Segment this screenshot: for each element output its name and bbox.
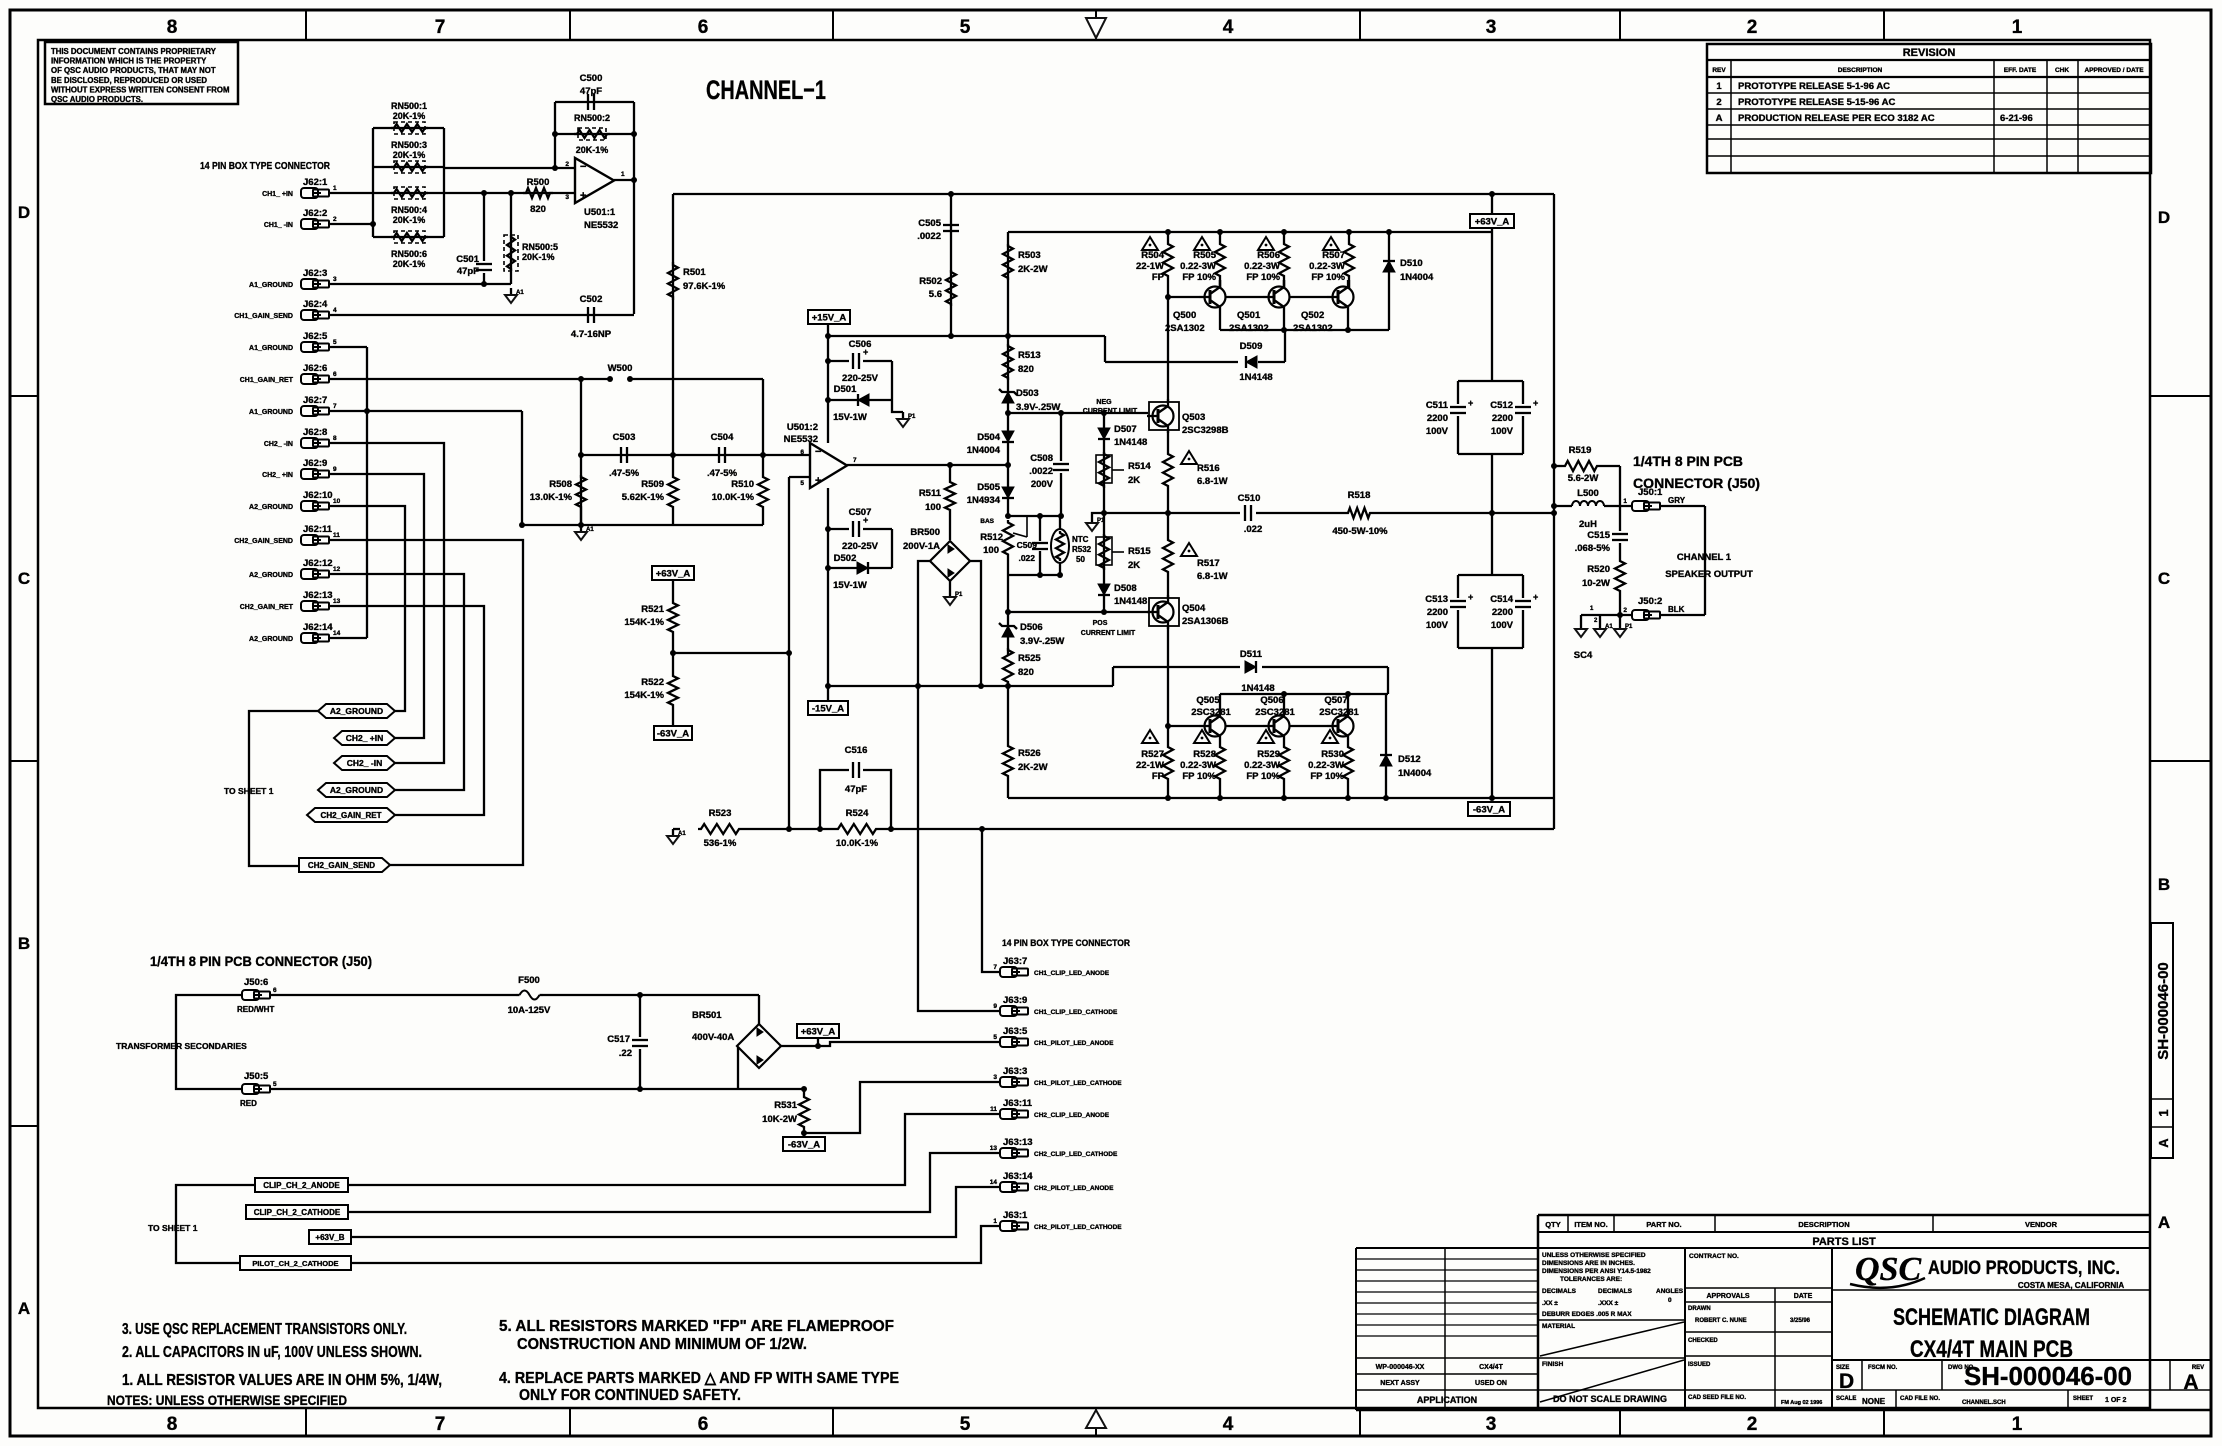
wire box top bottom row: [1220, 693, 1388, 695]
svg-text:QTY: QTY: [1545, 1220, 1560, 1229]
svg-text:RN500:2: RN500:2: [574, 113, 610, 123]
svg-text:450-5W-10%: 450-5W-10%: [1332, 526, 1388, 537]
node PILOT_CH_2_CATHODE: [240, 1256, 351, 1270]
transformer bracket: [176, 995, 242, 1089]
svg-text:7: 7: [435, 17, 446, 38]
svg-text:R517: R517: [1197, 558, 1220, 569]
svg-text:10A-125V: 10A-125V: [508, 1005, 551, 1016]
svg-text:1: 1: [2156, 1109, 2171, 1116]
svg-text:VENDOR: VENDOR: [2025, 1220, 2058, 1229]
svg-text:Q506: Q506: [1260, 695, 1283, 706]
svg-text:2SC3281: 2SC3281: [1191, 707, 1231, 718]
wire J62:2 stub: [329, 223, 373, 225]
wire J62:1 to op-amp +: [329, 192, 575, 194]
connector pin J62:12 (A2_GROUND): [301, 569, 318, 579]
inductor L500: [1554, 505, 1572, 507]
svg-text:20K-1%: 20K-1%: [522, 252, 555, 262]
approvals block: [1831, 1248, 1833, 1410]
svg-text:6: 6: [698, 1414, 709, 1435]
svg-text:CH2_GAIN_SEND: CH2_GAIN_SEND: [234, 538, 293, 545]
svg-text:CHK: CHK: [2055, 67, 2069, 74]
connector pin J62:13 (CH2_GAIN_RET): [301, 601, 318, 611]
svg-text:U501:1: U501:1: [584, 207, 616, 218]
svg-text:220-25V: 220-25V: [842, 541, 879, 552]
resistor RN500:5: [510, 193, 512, 284]
svg-text:CLIP_CH_2_CATHODE: CLIP_CH_2_CATHODE: [254, 1208, 341, 1217]
capacitor C517: [639, 995, 641, 1037]
svg-text:J63:14: J63:14: [1003, 1171, 1033, 1182]
capacitor C505: [950, 194, 952, 336]
svg-text:A: A: [18, 1299, 30, 1318]
capacitor C514: [1522, 575, 1524, 598]
svg-text:ISSUED: ISSUED: [1688, 1362, 1711, 1368]
svg-text:D504: D504: [977, 432, 1000, 443]
wire D511 row: [1113, 666, 1240, 668]
svg-text:Q501: Q501: [1237, 310, 1261, 321]
svg-text:SCHEMATIC DIAGRAM: SCHEMATIC DIAGRAM: [1893, 1304, 2090, 1331]
wire feedback top: [555, 101, 634, 103]
svg-text:SCALE: SCALE: [1836, 1396, 1856, 1402]
svg-text:TRANSFORMER SECONDARIES: TRANSFORMER SECONDARIES: [116, 1041, 247, 1051]
wire R531 to J63:3: [804, 1082, 1000, 1133]
ground (mid): [1092, 513, 1104, 516]
svg-text:A1_GROUND: A1_GROUND: [249, 409, 293, 416]
svg-text:+: +: [1533, 592, 1538, 602]
wire +63 rail: [1008, 231, 1492, 233]
svg-text:INFORMATION WHICH IS THE PROPE: INFORMATION WHICH IS THE PROPERTY: [51, 57, 207, 66]
svg-text:CH2_PILOT_LED_ANODE: CH2_PILOT_LED_ANODE: [1034, 1185, 1114, 1192]
wire bottom edge link: [1553, 828, 1555, 830]
svg-text:A1: A1: [678, 831, 686, 837]
wire minus bus 2: [581, 454, 810, 456]
resistor R514 (trim): [1099, 452, 1109, 488]
connector pin J62:9 (CH2_ +IN): [301, 469, 318, 479]
node -15V_A: [808, 701, 848, 715]
svg-text:+63V_A: +63V_A: [656, 569, 691, 580]
svg-text:FP 10%: FP 10%: [1182, 771, 1216, 782]
resistor R522: [668, 674, 678, 707]
wire ground bundle J62 5/7/14: [329, 346, 367, 348]
svg-text:R521: R521: [641, 604, 664, 615]
wire op2 supply upper: [827, 336, 829, 443]
wire F500 to BR501: [543, 994, 759, 996]
capacitor C503: [620, 447, 622, 463]
svg-text:RED/WHT: RED/WHT: [237, 1005, 274, 1014]
node +63V_A (bottom): [797, 1024, 839, 1038]
svg-text:3: 3: [565, 194, 569, 201]
svg-text:GRY: GRY: [1668, 496, 1686, 505]
resistor R503: [1003, 244, 1013, 280]
svg-text:CH2_ +IN: CH2_ +IN: [262, 472, 293, 479]
diode D503 (zener): [1002, 392, 1014, 403]
wire NEG rail: [1008, 412, 1148, 414]
svg-text:R529: R529: [1257, 749, 1280, 760]
svg-text:DATE: DATE: [1794, 1293, 1813, 1300]
svg-text:22-1W: 22-1W: [1136, 261, 1164, 272]
svg-text:REV: REV: [1712, 67, 1726, 74]
svg-text:BR500: BR500: [910, 527, 940, 538]
svg-text:J63:11: J63:11: [1003, 1098, 1033, 1109]
svg-text:13: 13: [990, 1145, 998, 1152]
svg-text:CONSTRUCTION AND MINIMUM OF 1/: CONSTRUCTION AND MINIMUM OF 1/2W.: [517, 1336, 807, 1353]
svg-text:1: 1: [2012, 1414, 2023, 1435]
svg-text:D510: D510: [1400, 258, 1423, 269]
svg-text:200V: 200V: [1031, 479, 1054, 490]
svg-text:10-2W: 10-2W: [1582, 578, 1610, 589]
svg-text:3.9V-.25W: 3.9V-.25W: [1016, 402, 1060, 413]
resistor R502: [946, 270, 956, 306]
bridge rectifier BR500: [930, 541, 970, 581]
svg-text:9: 9: [993, 1003, 997, 1010]
ground (out A1): [1599, 615, 1601, 622]
wire right edge: [1553, 194, 1555, 829]
svg-text:3/25/96: 3/25/96: [1790, 1318, 1811, 1324]
svg-text:J62:7: J62:7: [303, 395, 327, 406]
svg-text:C516: C516: [845, 745, 868, 756]
connector pin J62:2 (CH1_ -IN): [301, 219, 318, 229]
connector pin J63:1 (CH2_PILOT_LED_CATHODE): [1000, 1221, 1017, 1231]
svg-text:APPROVALS: APPROVALS: [1706, 1293, 1749, 1300]
svg-text:.XX ±: .XX ±: [1542, 1300, 1558, 1307]
resistor R515 (trim): [1099, 534, 1109, 570]
resistor R520: [1615, 559, 1625, 593]
svg-text:A2_GROUND: A2_GROUND: [249, 572, 293, 579]
svg-text:154K-1%: 154K-1%: [624, 690, 664, 701]
wire J63:11 down: [348, 1114, 1000, 1185]
resistor R506: [1279, 232, 1289, 288]
node CH2_GAIN_RET flag: [307, 808, 395, 822]
svg-text:C509: C509: [1017, 540, 1038, 550]
svg-text:B: B: [2158, 875, 2170, 894]
svg-text:1N4148: 1N4148: [1239, 372, 1272, 383]
wire BR500 right: [970, 561, 981, 686]
svg-text:NE5532: NE5532: [584, 220, 618, 231]
svg-text:RED: RED: [240, 1099, 257, 1108]
svg-text:D503: D503: [1016, 388, 1039, 399]
node A2_GROUND flag 2: [318, 783, 395, 797]
capacitor C512: [1522, 381, 1524, 404]
svg-text:2K: 2K: [1128, 560, 1140, 571]
svg-text:+63V_A: +63V_A: [801, 1027, 836, 1038]
svg-text:15V-1W: 15V-1W: [833, 580, 867, 591]
wire +63 to J63:5: [818, 1042, 1000, 1046]
svg-text:SH-000046-00: SH-000046-00: [1964, 1361, 2132, 1391]
resistor R519: [1554, 465, 1562, 467]
svg-text:A2_GROUND: A2_GROUND: [330, 785, 383, 795]
alignment mark bottom: [1086, 1410, 1106, 1428]
svg-text:536-1%: 536-1%: [704, 838, 737, 849]
svg-text:CH1_PILOT_LED_CATHODE: CH1_PILOT_LED_CATHODE: [1034, 1080, 1122, 1087]
connector pin J62:7 (A1_GROUND): [301, 406, 318, 416]
svg-text:10: 10: [333, 498, 341, 505]
svg-text:D: D: [2158, 208, 2170, 227]
svg-text:R504: R504: [1141, 250, 1164, 261]
svg-text:+15V_A: +15V_A: [812, 313, 847, 324]
svg-text:820: 820: [1018, 667, 1034, 678]
size and dwg band: [1832, 1359, 2211, 1361]
svg-text:.022: .022: [1244, 524, 1263, 535]
node +15V_A: [808, 310, 850, 324]
wire output rail: [1104, 512, 1240, 514]
wire J62:8 to CH2_-IN: [329, 443, 444, 763]
wire -63 rail: [1008, 797, 1554, 799]
svg-text:THIS DOCUMENT CONTAINS PROPRIE: THIS DOCUMENT CONTAINS PROPRIETARY: [51, 47, 217, 56]
svg-text:3: 3: [1486, 1414, 1497, 1435]
svg-text:0: 0: [1668, 1297, 1672, 1304]
svg-text:SPEAKER OUTPUT: SPEAKER OUTPUT: [1665, 569, 1753, 580]
svg-text:C: C: [18, 569, 30, 588]
wire spine 4: [1007, 465, 1009, 516]
svg-text:.022: .022: [1018, 553, 1035, 563]
svg-text:6: 6: [273, 987, 277, 994]
ground (BR500): [949, 581, 951, 590]
svg-text:FINISH: FINISH: [1542, 1361, 1564, 1368]
svg-text:6: 6: [800, 449, 804, 456]
svg-text:−: −: [580, 161, 586, 173]
resistor R505: [1215, 232, 1225, 288]
svg-text:C506: C506: [849, 339, 872, 350]
svg-text:J62:10: J62:10: [303, 490, 333, 501]
svg-text:2: 2: [1716, 97, 1721, 108]
svg-text:2K-2W: 2K-2W: [1018, 762, 1048, 773]
svg-text:97.6K-1%: 97.6K-1%: [683, 281, 726, 292]
svg-text:DESCRIPTION: DESCRIPTION: [1798, 1220, 1849, 1229]
diode D501: [828, 399, 892, 401]
connector pin J50:5: [242, 1084, 259, 1094]
svg-text:Q502: Q502: [1301, 310, 1324, 321]
svg-text:APPLICATION: APPLICATION: [1417, 1395, 1477, 1405]
svg-text:CLIP_CH_2_ANODE: CLIP_CH_2_ANODE: [263, 1181, 340, 1190]
svg-text:.XXX ±: .XXX ±: [1598, 1300, 1619, 1307]
transistor Q505: [1205, 716, 1226, 737]
svg-text:CH2_ +IN: CH2_ +IN: [346, 733, 384, 743]
svg-text:RN500:4: RN500:4: [391, 205, 427, 215]
svg-text:CH2_ -IN: CH2_ -IN: [347, 758, 382, 768]
svg-text:1: 1: [993, 1218, 997, 1225]
svg-text:A1_GROUND: A1_GROUND: [249, 282, 293, 289]
svg-text:820: 820: [530, 204, 546, 215]
tolerance block: [1684, 1248, 1686, 1410]
svg-text:C502: C502: [580, 294, 603, 305]
wire op2 supply lower: [827, 488, 829, 701]
svg-text:B: B: [18, 934, 30, 953]
svg-text:R523: R523: [709, 808, 732, 819]
svg-text:CH2_GAIN_RET: CH2_GAIN_RET: [321, 811, 382, 820]
svg-text:W500: W500: [608, 363, 633, 374]
svg-text:0.22-3W: 0.22-3W: [1180, 760, 1216, 771]
svg-text:47pF: 47pF: [580, 86, 602, 97]
svg-text:CHANNEL 1: CHANNEL 1: [1677, 552, 1732, 563]
connector pin J62:3 (A1_GROUND): [301, 279, 318, 289]
svg-text:CAD FILE NO.: CAD FILE NO.: [1900, 1396, 1940, 1402]
wire J62:12 to A2_GROUND: [329, 574, 464, 790]
diode D504: [1002, 431, 1014, 442]
wire C511 box stems: [1491, 454, 1493, 513]
svg-text:C513: C513: [1425, 594, 1448, 605]
material slash: [1540, 1322, 1684, 1356]
svg-text:CHANNEL.SCH: CHANNEL.SCH: [1962, 1400, 2006, 1406]
wire right bus vertical: [443, 128, 445, 237]
svg-text:1: 1: [1623, 498, 1627, 505]
application table: [1355, 1248, 1357, 1410]
svg-text:R502: R502: [919, 276, 942, 287]
svg-text:-63V_A: -63V_A: [788, 1140, 820, 1151]
svg-text:J50:5: J50:5: [244, 1071, 269, 1082]
wire J63:13 down: [348, 1153, 1000, 1212]
svg-text:NOTES: UNLESS OTHERWISE SPECIF: NOTES: UNLESS OTHERWISE SPECIFIED: [107, 1392, 347, 1408]
svg-text:20K-1%: 20K-1%: [393, 111, 426, 121]
resistor R509: [672, 455, 674, 475]
svg-text:2SC3298B: 2SC3298B: [1182, 425, 1229, 436]
svg-text:U501:2: U501:2: [787, 422, 818, 433]
svg-text:J63:7: J63:7: [1003, 956, 1027, 967]
svg-text:J63:3: J63:3: [1003, 1066, 1027, 1077]
svg-text:BAS: BAS: [980, 518, 994, 525]
wire bias box: [1008, 515, 1061, 517]
wire RN500:3 row: [373, 166, 444, 168]
svg-text:5: 5: [993, 1034, 997, 1041]
svg-text:FP 10%: FP 10%: [1246, 272, 1280, 283]
svg-text:2uH: 2uH: [1579, 519, 1597, 530]
diode D512: [1385, 694, 1387, 798]
resistor RN500:2: [574, 130, 610, 138]
svg-text:0.22-3W: 0.22-3W: [1180, 261, 1216, 272]
wire J50:1 out: [1660, 505, 1705, 507]
svg-text:1: 1: [621, 171, 625, 178]
transistor Q503: [1149, 402, 1179, 430]
svg-text:FM Aug 02 1996: FM Aug 02 1996: [1781, 1400, 1822, 1406]
svg-text:5: 5: [960, 1414, 971, 1435]
connector pin J50:6: [242, 990, 259, 1000]
resistor R508: [576, 475, 586, 509]
svg-text:F500: F500: [518, 975, 540, 986]
svg-text:CH1_GAIN_RET: CH1_GAIN_RET: [240, 377, 294, 384]
wire bottom rail: [522, 524, 763, 526]
svg-text:.0022: .0022: [1029, 466, 1053, 477]
svg-text:J63:13: J63:13: [1003, 1137, 1033, 1148]
wire J63:9 up: [918, 687, 1000, 1011]
resistor R527: [1167, 726, 1169, 744]
svg-text:POS: POS: [1093, 620, 1108, 627]
transistor Q507: [1333, 716, 1354, 737]
svg-text:R531: R531: [774, 1100, 797, 1111]
capacitor C511: [1458, 380, 1523, 382]
svg-text:R509: R509: [641, 479, 664, 490]
diode D511: [1245, 661, 1256, 673]
resistor R512 (trim): [1003, 520, 1013, 557]
svg-text:14 PIN BOX TYPE CONNECTOR: 14 PIN BOX TYPE CONNECTOR: [200, 160, 330, 172]
wire base bus bottom: [1168, 725, 1199, 727]
svg-text:C514: C514: [1490, 594, 1513, 605]
svg-text:FP 10%: FP 10%: [1182, 272, 1216, 283]
capacitor C508: [1060, 413, 1062, 461]
svg-text:.47-5%: .47-5%: [609, 468, 640, 479]
svg-text:0.22-3W: 0.22-3W: [1244, 760, 1280, 771]
wire RN500:2 row: [555, 133, 634, 135]
capacitor C506: [828, 360, 849, 362]
proprietary notice box: [45, 42, 238, 104]
wire J63:1 down: [351, 1226, 1000, 1263]
diode D506 (zener): [1007, 612, 1009, 655]
svg-text:.0022: .0022: [917, 231, 941, 242]
capacitor C507: [828, 528, 849, 530]
diode D502: [828, 567, 892, 569]
svg-text:20K-1%: 20K-1%: [393, 150, 426, 160]
svg-text:6.8-1W: 6.8-1W: [1197, 571, 1228, 582]
svg-text:J50:6: J50:6: [244, 977, 268, 988]
capacitor C500: [587, 94, 589, 110]
wire op2 output: [847, 464, 1008, 466]
svg-text:PILOT_CH_2_CATHODE: PILOT_CH_2_CATHODE: [252, 1259, 338, 1268]
wire emitter bus top: [1219, 314, 1221, 330]
svg-text:R527: R527: [1141, 749, 1164, 760]
resistor R518: [1345, 508, 1373, 518]
svg-text:-63V_A: -63V_A: [657, 729, 689, 740]
svg-text:14: 14: [333, 630, 341, 637]
svg-text:R528: R528: [1193, 749, 1216, 760]
wire C502 row: [329, 314, 634, 316]
svg-text:NE5532: NE5532: [784, 434, 818, 445]
svg-text:100V: 100V: [1426, 620, 1449, 631]
wire Q505 collector lead: [1219, 694, 1221, 714]
svg-text:CH1_ -IN: CH1_ -IN: [264, 222, 293, 229]
svg-text:MATERIAL: MATERIAL: [1542, 1323, 1575, 1330]
fuse F500: [516, 994, 520, 996]
wire lower link: [828, 685, 1113, 687]
svg-text:Q500: Q500: [1173, 310, 1196, 321]
resistor R513: [1003, 344, 1013, 380]
svg-text:2200: 2200: [1427, 413, 1448, 424]
svg-text:R513: R513: [1018, 350, 1041, 361]
svg-text:R501: R501: [683, 267, 706, 278]
resistor RN500:4: [391, 189, 428, 197]
svg-text:4: 4: [1223, 1414, 1234, 1435]
svg-text:D501: D501: [834, 384, 857, 395]
ground (D501): [892, 400, 903, 412]
svg-text:C511: C511: [1426, 400, 1449, 411]
svg-text:+: +: [1533, 398, 1538, 408]
svg-text:CH1_CLIP_LED_CATHODE: CH1_CLIP_LED_CATHODE: [1034, 1009, 1118, 1016]
svg-text:2SC3281: 2SC3281: [1319, 707, 1359, 718]
svg-text:A1: A1: [516, 290, 524, 296]
node -63V_A (bottom): [783, 1137, 825, 1151]
svg-text:DECIMALS: DECIMALS: [1598, 1288, 1633, 1295]
svg-text:COSTA MESA, CALIFORNIA: COSTA MESA, CALIFORNIA: [2018, 1281, 2124, 1290]
ground SC4: [1580, 615, 1582, 622]
svg-text:SC4: SC4: [1574, 650, 1593, 661]
wire J62:3 row: [329, 283, 511, 285]
svg-text:154K-1%: 154K-1%: [624, 617, 664, 628]
svg-text:J62:5: J62:5: [303, 331, 328, 342]
svg-text:.22: .22: [619, 1048, 632, 1059]
svg-text:400V-40A: 400V-40A: [692, 1032, 734, 1043]
svg-text:4.7-16NP: 4.7-16NP: [571, 329, 612, 340]
svg-text:A: A: [1716, 113, 1723, 124]
svg-text:RN500:6: RN500:6: [391, 249, 427, 259]
svg-text:9: 9: [333, 466, 337, 473]
svg-text:D: D: [1839, 1370, 1854, 1393]
svg-text:1N4004: 1N4004: [1398, 768, 1432, 779]
wire Q507 collector lead: [1347, 694, 1349, 714]
svg-text:CH1_ +IN: CH1_ +IN: [262, 191, 293, 198]
connector pin J63:3 (CH1_PILOT_LED_CATHODE): [1000, 1077, 1017, 1087]
svg-text:1N4004: 1N4004: [967, 445, 1001, 456]
svg-text:J63:9: J63:9: [1003, 995, 1027, 1006]
svg-text:R530: R530: [1321, 749, 1344, 760]
svg-text:R518: R518: [1348, 490, 1371, 501]
svg-text:R505: R505: [1193, 250, 1216, 261]
wire R508 col: [580, 379, 582, 525]
